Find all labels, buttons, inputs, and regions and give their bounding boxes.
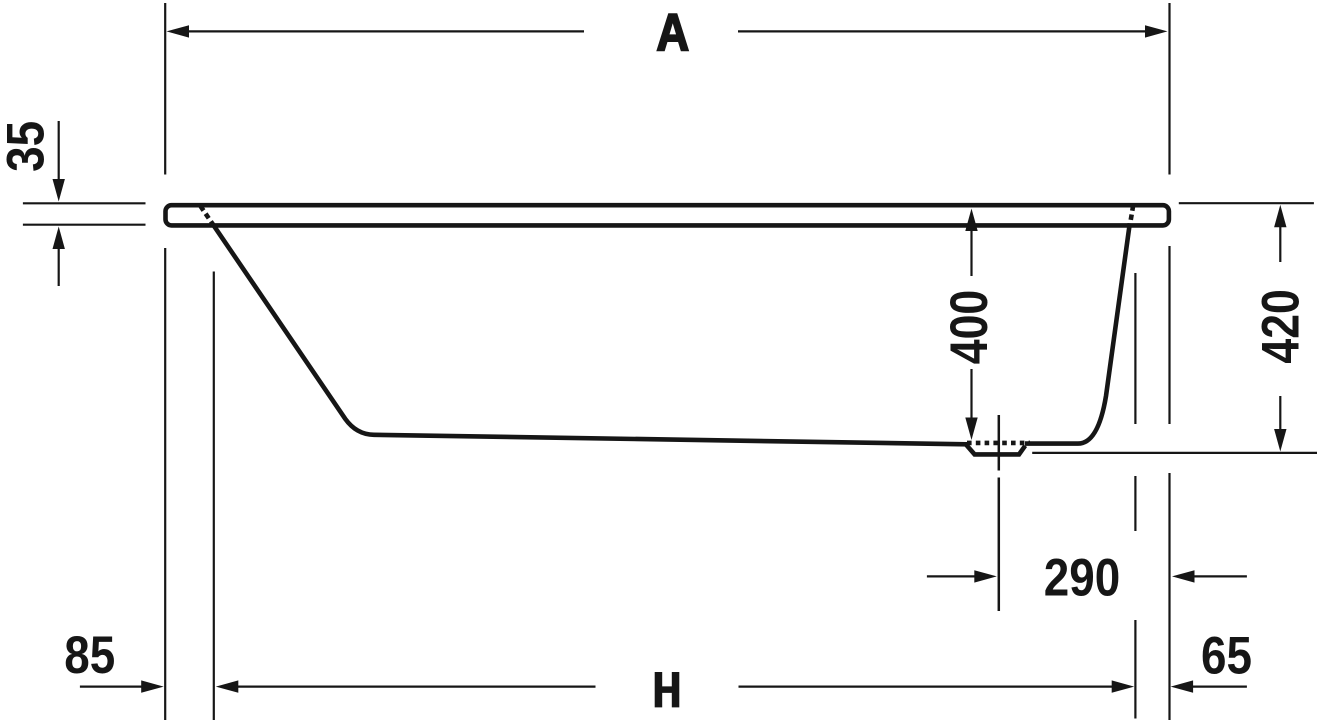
svg-text:65: 65 [1201, 627, 1252, 686]
svg-text:35: 35 [0, 121, 55, 172]
svg-text:400: 400 [940, 290, 998, 364]
svg-text:85: 85 [64, 626, 115, 685]
svg-text:420: 420 [1252, 289, 1310, 363]
svg-text:A: A [656, 4, 689, 62]
svg-text:290: 290 [1044, 549, 1120, 608]
